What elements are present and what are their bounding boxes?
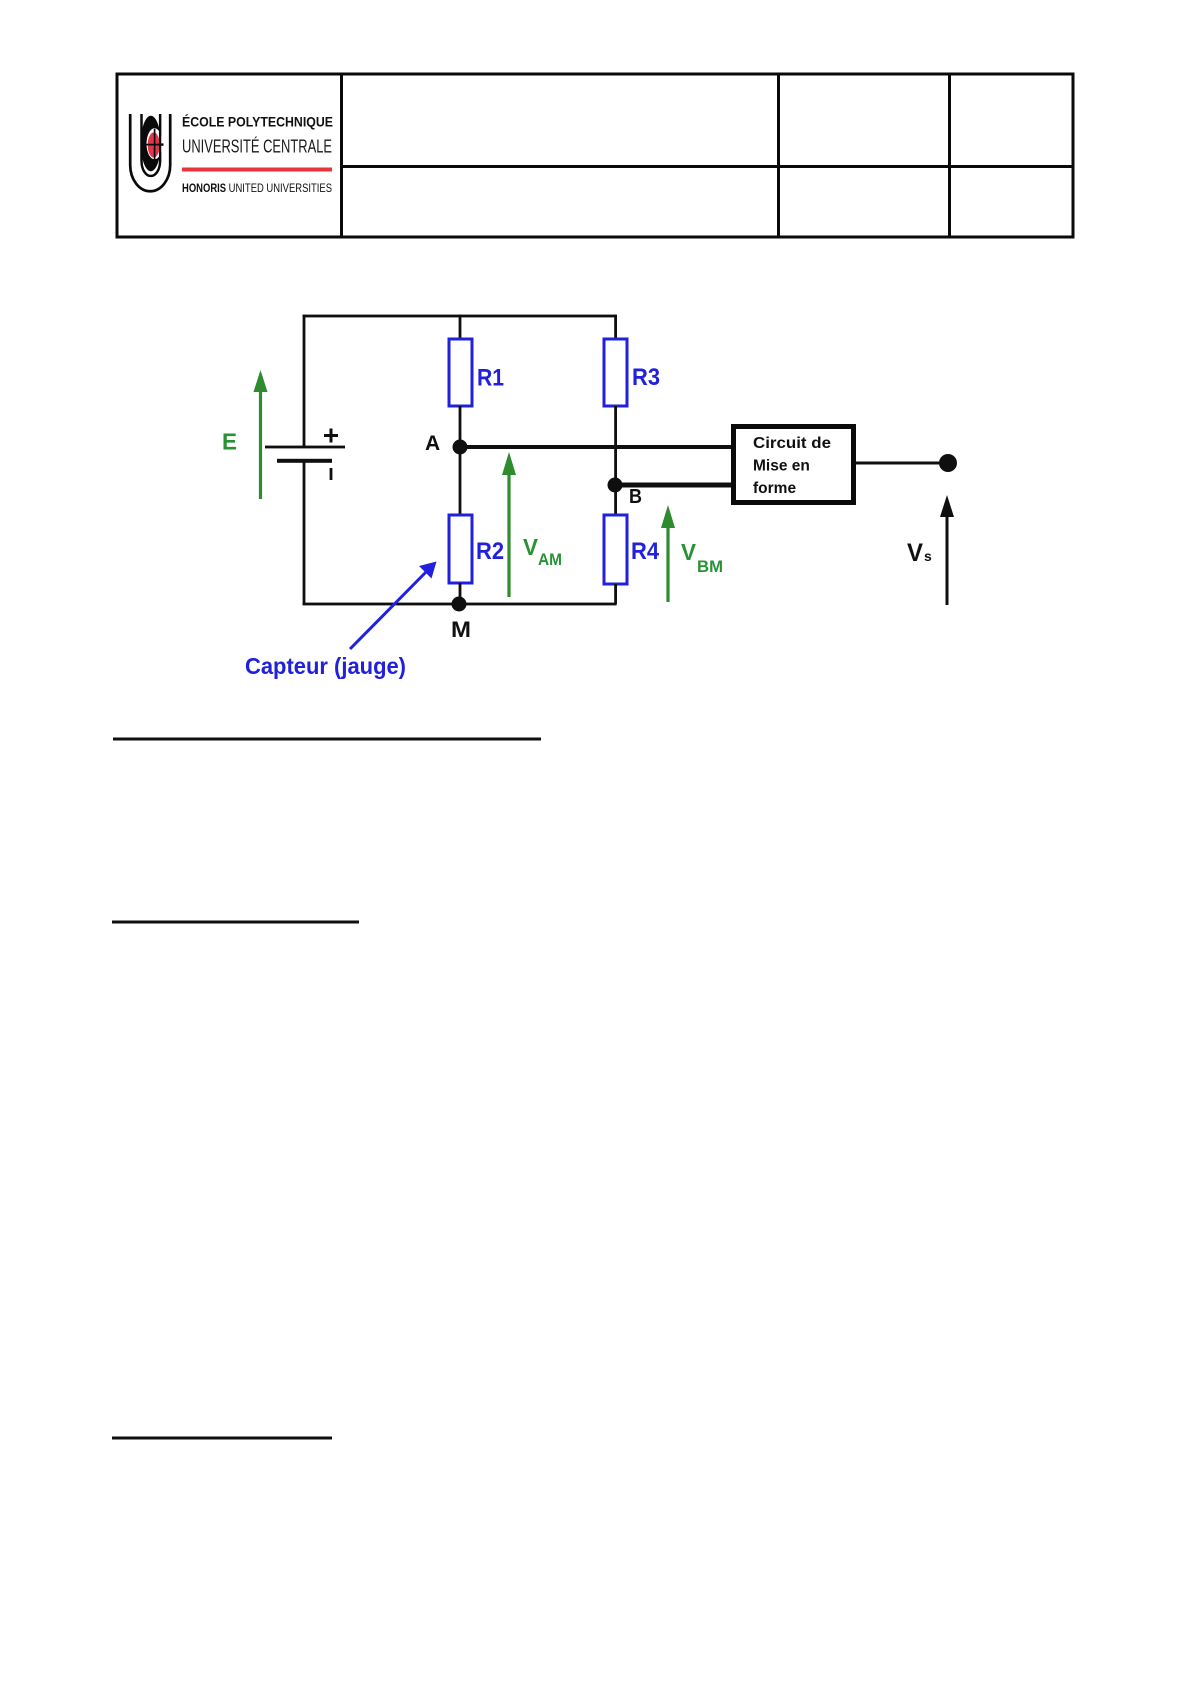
svg-text:M: M — [451, 617, 471, 642]
signal conditioning box U1 — [734, 427, 854, 503]
wire box output — [856, 462, 948, 465]
voltage arrow Vs — [940, 495, 954, 605]
section heading rule 1 — [113, 738, 541, 741]
wire bottom rail — [303, 603, 617, 606]
logo U mark — [130, 114, 170, 191]
wire R2 top lead — [459, 447, 462, 515]
section heading rule 3 — [112, 1437, 332, 1440]
wire R3 bottom lead to node B and R4 — [614, 406, 617, 515]
svg-text:Mise en: Mise en — [753, 458, 810, 475]
wire R3 top lead — [614, 315, 617, 341]
wire R1 top lead — [459, 315, 462, 341]
svg-text:ÉCOLE POLYTECHNIQUE: ÉCOLE POLYTECHNIQUE — [182, 115, 333, 130]
battery E positive plate — [265, 446, 345, 449]
voltage arrow VAM — [502, 452, 516, 597]
source arrow E — [254, 370, 268, 499]
svg-text:s: s — [924, 548, 932, 564]
logo red bar — [182, 168, 332, 172]
svg-text:forme: forme — [753, 480, 796, 497]
node M — [452, 597, 467, 612]
svg-text:V: V — [681, 539, 697, 565]
section heading rule 2 — [112, 921, 359, 924]
wire node A to circuit box — [460, 445, 733, 449]
header table vertical divider 1 — [340, 74, 343, 237]
svg-text:R4: R4 — [631, 538, 660, 565]
svg-text:B: B — [629, 486, 642, 508]
output node Vs — [939, 454, 957, 472]
node A — [453, 440, 468, 455]
svg-text:R2: R2 — [476, 538, 504, 565]
header table outer border — [117, 74, 1073, 237]
wire R4 bottom lead — [614, 584, 617, 604]
svg-text:E: E — [222, 429, 237, 455]
header table horizontal divider — [341, 165, 1073, 168]
resistor R1 — [449, 339, 472, 406]
wire R2 bottom lead — [459, 583, 462, 604]
svg-text:HONORIS UNITED UNIVERSITIES: HONORIS UNITED UNIVERSITIES — [182, 181, 332, 195]
battery E negative plate — [277, 459, 332, 463]
header table vertical divider 2 — [777, 74, 780, 237]
node B — [608, 478, 623, 493]
resistor R3 — [604, 339, 627, 406]
resistor R2 (capteur) — [449, 515, 472, 583]
svg-text:Circuit de: Circuit de — [753, 435, 831, 452]
resistor R4 — [604, 515, 627, 584]
svg-text:AM: AM — [538, 551, 562, 569]
svg-text:R3: R3 — [632, 364, 660, 391]
svg-text:V: V — [523, 534, 539, 560]
svg-text:V: V — [907, 539, 923, 567]
svg-text:UNIVERSITÉ CENTRALE: UNIVERSITÉ CENTRALE — [182, 136, 332, 157]
svg-text:BM: BM — [697, 558, 723, 576]
wire top rail — [303, 315, 617, 318]
battery minus tick — [330, 468, 333, 480]
wire left vertical lower (battery -) — [303, 462, 306, 605]
svg-text:R1: R1 — [477, 365, 504, 392]
svg-text:Capteur (jauge): Capteur (jauge) — [245, 653, 406, 679]
wire left vertical upper (battery +) — [303, 315, 306, 447]
svg-text:A: A — [425, 432, 440, 455]
header table vertical divider 3 — [948, 74, 951, 237]
battery plus sign — [324, 429, 338, 443]
wire node B to circuit box — [615, 483, 733, 488]
wire R1 bottom lead — [459, 406, 462, 447]
capteur annotation arrow — [350, 562, 437, 650]
voltage arrow VBM — [661, 505, 675, 602]
